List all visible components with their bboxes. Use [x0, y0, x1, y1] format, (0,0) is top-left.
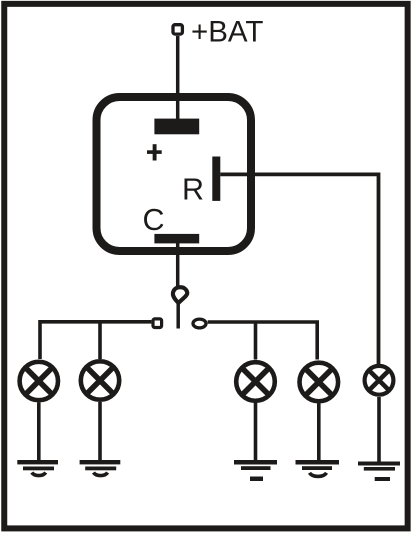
svg-text:+BAT: +BAT — [191, 15, 263, 48]
svg-text:R: R — [182, 173, 204, 207]
svg-text:C: C — [143, 203, 165, 237]
